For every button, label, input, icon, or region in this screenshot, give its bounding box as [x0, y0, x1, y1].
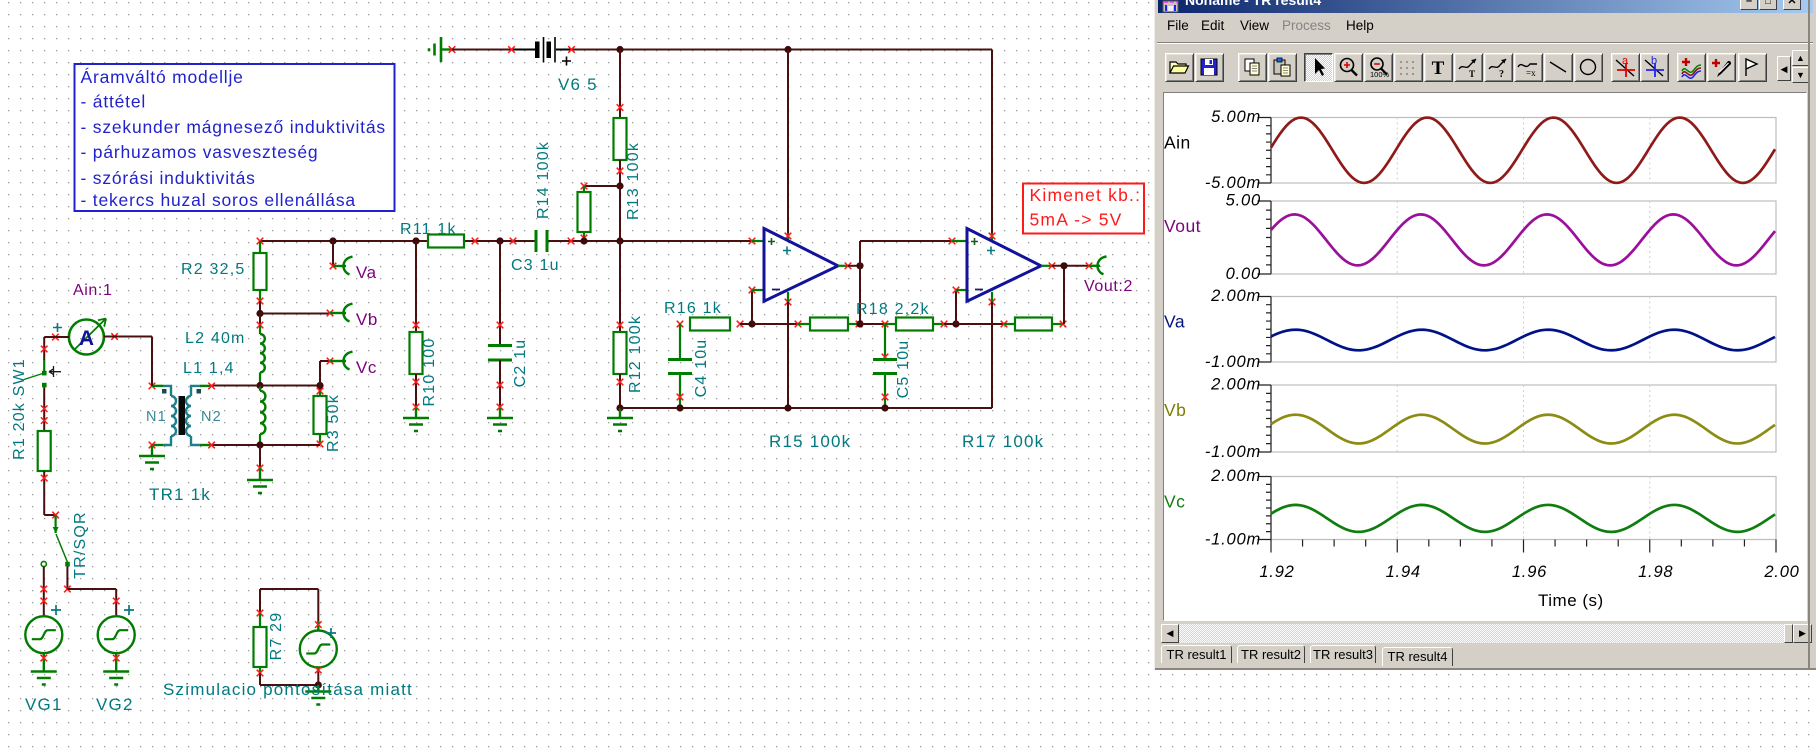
toolbar button copy [1238, 53, 1267, 82]
junction top rail / op1 supply [784, 46, 791, 53]
toolbar button T [1424, 53, 1453, 82]
y axis Vc [1258, 477, 1272, 540]
ground under R10 [403, 408, 429, 431]
svg-text:R11 1k: R11 1k [400, 221, 457, 238]
title icon [1162, 0, 1179, 13]
capacitor C4 [668, 321, 710, 408]
resistor R12 [614, 241, 645, 408]
source VG1 [25, 605, 63, 714]
toolbar button cura [1611, 53, 1640, 82]
svg-text:R15 100k: R15 100k [769, 432, 851, 451]
svg-text:2.00m: 2.00m [1210, 376, 1261, 394]
svg-text:Vc: Vc [356, 358, 377, 377]
ground under C2 [487, 408, 513, 431]
wire op1 V+ supply [785, 50, 792, 242]
svg-text:TR1 1k: TR1 1k [149, 485, 211, 504]
ammeter Ain [52, 282, 118, 355]
titlebar buttons [1740, 0, 1758, 10]
junction op2 -in node [952, 320, 959, 327]
svg-text:R13 100k: R13 100k [625, 142, 642, 220]
svg-text:R14 100k: R14 100k [535, 141, 552, 219]
tab TR result3 [1310, 645, 1376, 663]
svg-text:R1 20k SW1: R1 20k SW1 [11, 358, 28, 460]
svg-text:R12 100k: R12 100k [627, 315, 644, 393]
ground under TR1 primary [139, 445, 165, 469]
plot frame Ain [1271, 118, 1776, 184]
junction R2/Vb [256, 310, 263, 317]
svg-text:-5.00m: -5.00m [1205, 174, 1261, 192]
junction C5/ground rail [881, 404, 888, 411]
source VG2 [96, 605, 135, 714]
svg-text:1.98: 1.98 [1638, 563, 1673, 581]
wire to VG1 [41, 567, 48, 616]
resistor R16 [664, 300, 752, 331]
svg-text:R18 2,2k: R18 2,2k [856, 301, 930, 318]
menu bar [1167, 18, 1189, 33]
wire R13 junction down to rail [619, 186, 621, 241]
op-amp U1 [764, 229, 851, 409]
svg-text:Vc: Vc [1164, 492, 1185, 512]
wire op1 out to op2 +in [860, 238, 967, 266]
curve Va [1271, 330, 1775, 351]
capacitor C5 [873, 324, 912, 408]
toolbar button grid [1394, 53, 1423, 82]
svg-text:R7 29: R7 29 [268, 612, 285, 661]
resistor R13 [614, 50, 643, 221]
tab TR result2 [1237, 645, 1305, 663]
toolbar button curveT [1454, 53, 1483, 82]
wire op1 +in stub [749, 238, 764, 245]
op-amp U2 [967, 229, 1055, 409]
resistor R10 [410, 241, 439, 410]
gridlines Vc [1396, 477, 1398, 540]
wire op2 -in [953, 287, 967, 324]
svg-text:C3 1u: C3 1u [511, 257, 560, 274]
junction op1 output [848, 262, 864, 269]
wire N2 top to column [212, 385, 320, 387]
toolbar button open [1165, 53, 1194, 82]
svg-text:-1.00m: -1.00m [1205, 531, 1261, 549]
gridlines Vb [1396, 385, 1398, 452]
toolbar button pen [1707, 53, 1736, 82]
battery V6 [508, 37, 598, 94]
probe Vout:2 [1084, 256, 1133, 295]
probe Vb [260, 304, 378, 330]
toolbar right controls [1777, 56, 1791, 81]
svg-text:Ain: Ain [1164, 133, 1191, 153]
svg-text:Vout:2: Vout:2 [1084, 278, 1133, 295]
wire R7 top to VS1 [260, 589, 322, 631]
x axis ticks [1271, 540, 1776, 553]
svg-text:5mA -> 5V: 5mA -> 5V [1030, 210, 1123, 230]
wire ammeter to TR1 [117, 337, 152, 386]
junction rail/R10 [412, 237, 419, 244]
junction L2/N2 wire [256, 382, 263, 389]
svg-text:-1.00m: -1.00m [1205, 353, 1261, 371]
junction C4/ground rail [676, 404, 683, 411]
toolbar button paste [1268, 53, 1297, 82]
resistor R3 [314, 386, 343, 452]
toolbar button curveE [1514, 53, 1543, 82]
junction rail/Va [329, 237, 336, 244]
capacitor C3 [510, 230, 575, 274]
resistor R1 [38, 431, 51, 515]
y axis Vout [1258, 201, 1272, 274]
svg-text:C5 10u: C5 10u [895, 340, 912, 399]
svg-text:2.00m: 2.00m [1210, 287, 1261, 305]
info text box [75, 64, 395, 211]
junction op1 bottom / ground rail [784, 404, 791, 411]
junction rail/C2 [496, 237, 503, 244]
toolbar button line [1544, 53, 1573, 82]
inductor L1 [183, 360, 265, 445]
ground under VS1 [305, 685, 331, 705]
switch SW1 [11, 337, 61, 460]
source VS1 [300, 628, 337, 673]
output note box [1023, 184, 1144, 234]
svg-text:- szekunder mágnesező induktiv: - szekunder mágnesező induktivitás [81, 117, 386, 137]
toolbar button zoomin [1334, 53, 1363, 82]
svg-text:R16 1k: R16 1k [664, 300, 722, 317]
curve Vout [1271, 214, 1775, 265]
toolbar area [1157, 42, 1813, 44]
resistor R15 [752, 318, 862, 452]
svg-text:Va: Va [356, 263, 377, 282]
svg-text:R3 50k: R3 50k [325, 394, 342, 452]
TR result window [1154, 0, 1816, 670]
wire N2 bottom rail [212, 444, 320, 446]
svg-text:Vout: Vout [1164, 216, 1201, 236]
plot frame Vb [1271, 385, 1776, 452]
svg-text:- párhuzamos vasveszteség: - párhuzamos vasveszteség [81, 142, 319, 162]
wire to VG2 [64, 566, 119, 616]
wire op2 V+ supply [989, 50, 996, 242]
svg-text:2.00: 2.00 [1763, 563, 1799, 581]
plot frame Vout [1271, 201, 1776, 274]
svg-text:Time (s): Time (s) [1538, 591, 1604, 610]
probe Vc [320, 352, 377, 386]
toolbar button circle [1574, 53, 1603, 82]
curve Ain [1271, 118, 1775, 183]
svg-text:Va: Va [1164, 312, 1185, 332]
toolbar button curb [1640, 53, 1669, 82]
ground under R12 [607, 408, 633, 431]
svg-text:-1.00m: -1.00m [1205, 443, 1261, 461]
junction top rail / R13 [616, 46, 623, 53]
svg-text:V6 5: V6 5 [558, 75, 598, 94]
resistor R14 [535, 141, 620, 241]
wire main rail y=241 [260, 240, 764, 242]
junction op1 -in node [748, 320, 755, 327]
y axis Ain [1258, 118, 1272, 184]
svg-text:- áttétel: - áttétel [81, 92, 147, 112]
wire op1 out feedback [856, 266, 863, 328]
wire R17 to op2 out [1063, 266, 1065, 324]
junction R12/ground rail [616, 404, 623, 411]
svg-text:5.00: 5.00 [1226, 192, 1261, 210]
curve Vc [1271, 505, 1775, 532]
wire op1 -in [749, 287, 764, 324]
svg-text:VG1: VG1 [25, 695, 63, 714]
svg-text:0.00: 0.00 [1226, 265, 1261, 283]
inductor L2 [185, 314, 265, 386]
plot panel [1163, 92, 1807, 621]
svg-text:R17 100k: R17 100k [962, 432, 1044, 451]
svg-text:Ain:1: Ain:1 [73, 282, 112, 299]
svg-text:N1: N1 [146, 409, 167, 425]
wire ground rail y=408 [620, 407, 992, 409]
toolbar button save [1195, 53, 1224, 82]
junction op2 output [1052, 262, 1092, 269]
svg-text:Kimenet kb.:: Kimenet kb.: [1030, 185, 1142, 205]
svg-text:N2: N2 [201, 409, 222, 425]
svg-text:Vb: Vb [356, 310, 378, 329]
svg-text:R2 32,5: R2 32,5 [181, 261, 245, 278]
junction rail/R14 [580, 237, 587, 244]
toolbar button flag [1738, 53, 1767, 82]
toolbar button waves [1677, 53, 1706, 82]
junction Vc/R3 column [316, 382, 323, 389]
switch TR/SQR [41, 511, 89, 579]
svg-text:1.96: 1.96 [1512, 563, 1547, 581]
y axis Va [1258, 297, 1272, 363]
resistor R18 [856, 301, 956, 331]
svg-text:VG2: VG2 [96, 695, 134, 714]
toolbar button curveQ [1484, 53, 1513, 82]
svg-text:C2 1u: C2 1u [512, 339, 529, 388]
svg-text:C4 10u: C4 10u [693, 339, 710, 398]
svg-text:1.94: 1.94 [1386, 563, 1421, 581]
svg-text:Áramváltó modellje: Áramváltó modellje [81, 67, 244, 87]
svg-text:- tekercs huzal soros ellenáll: - tekercs huzal soros ellenállása [81, 190, 356, 210]
y axis Vb [1258, 385, 1272, 452]
svg-text:5.00m: 5.00m [1211, 108, 1261, 126]
gridlines Ain [1396, 118, 1398, 184]
wire top rail [452, 49, 992, 51]
svg-text:2.00m: 2.00m [1210, 467, 1261, 485]
gridlines Va [1396, 297, 1398, 363]
svg-text:- szórási induktivitás: - szórási induktivitás [81, 168, 256, 188]
ground (top rail, rotated left) [429, 37, 455, 62]
svg-text:L2 40m: L2 40m [185, 330, 246, 347]
junction L1 bottom [256, 441, 263, 448]
title text [1185, 0, 1321, 8]
junction R13/R14 [616, 182, 623, 189]
capacitor C2 [488, 241, 529, 410]
resistor R7 [254, 589, 286, 685]
gridlines Vout [1396, 201, 1398, 274]
svg-text:L1 1,4: L1 1,4 [183, 360, 235, 377]
toolbar button zoomout [1364, 53, 1393, 82]
svg-text:1.92: 1.92 [1259, 563, 1294, 581]
svg-text:Vb: Vb [1164, 400, 1186, 420]
plot frame Vc [1271, 477, 1776, 540]
resistor R11 [400, 221, 478, 248]
horizontal scrollbar [1161, 624, 1807, 643]
tab TR result1 [1161, 645, 1232, 663]
svg-text:Szimulacio pontosítása miatt: Szimulacio pontosítása miatt [163, 680, 413, 699]
probe Va [330, 241, 377, 282]
title bar [1158, 0, 1813, 13]
curve Vb [1271, 415, 1775, 444]
svg-text:TR/SQR: TR/SQR [72, 511, 89, 579]
toolbar button cursor [1304, 53, 1333, 82]
resistor R2 [181, 238, 267, 314]
svg-text:A: A [79, 327, 94, 350]
svg-text:R10 100: R10 100 [421, 338, 438, 407]
plot frame Va [1271, 297, 1776, 363]
resistor R17 [956, 318, 1066, 452]
tab TR result4 [1382, 647, 1453, 666]
wire R7 bottom rail [260, 672, 322, 689]
junction rail/R13 column [616, 237, 623, 244]
transformer TR1 [146, 383, 222, 504]
ground under L1 [247, 445, 273, 493]
